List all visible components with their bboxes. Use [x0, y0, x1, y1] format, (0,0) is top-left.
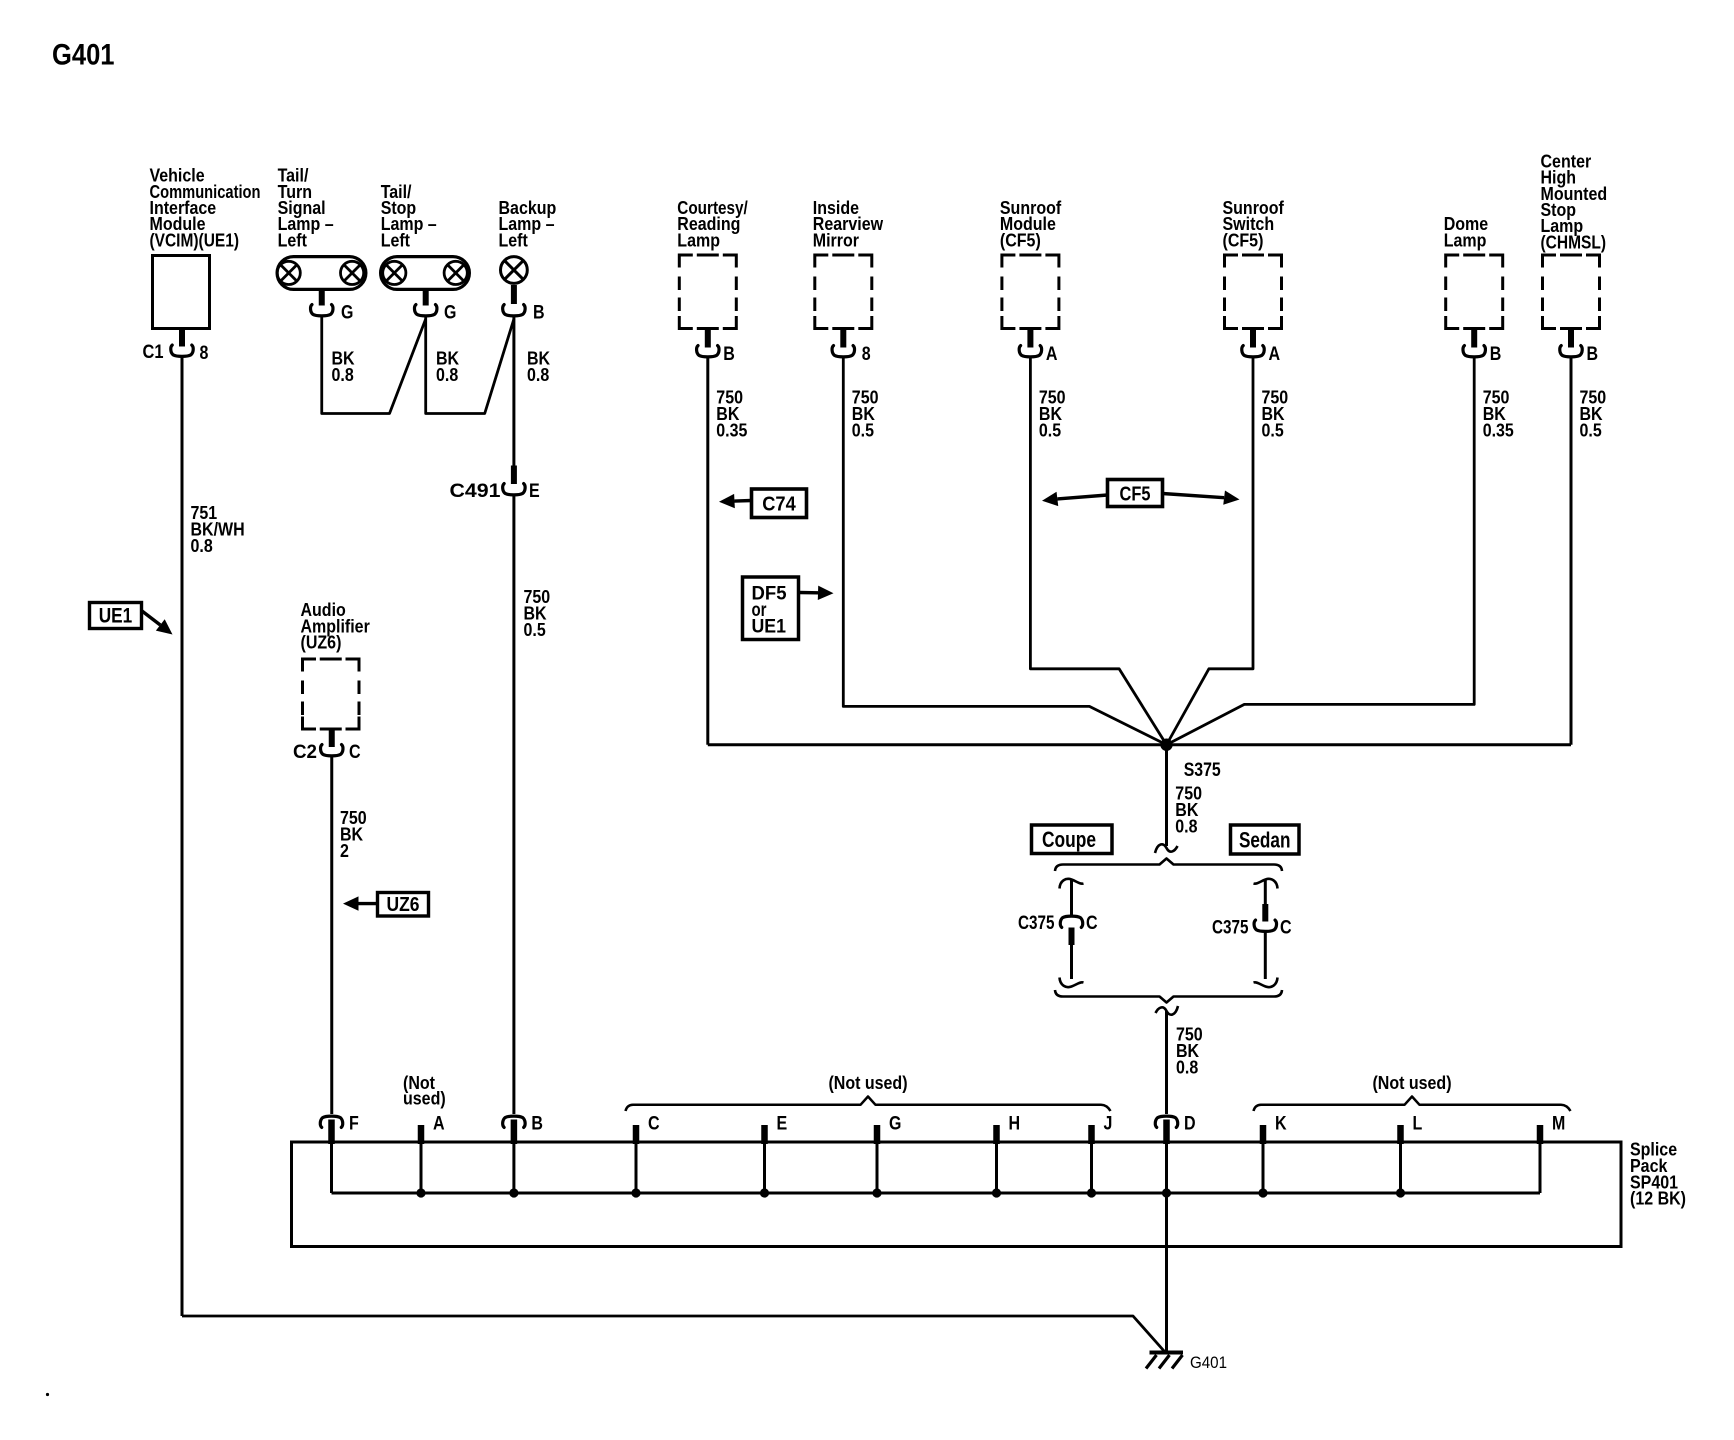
svg-text:(UZ6): (UZ6): [301, 633, 342, 653]
connector pin B courtesy/reading lamp: [697, 346, 719, 357]
sunroof switch pin stub: [1250, 330, 1256, 348]
coupe branch wire lower: [1070, 945, 1073, 979]
svg-text:B: B: [1490, 343, 1502, 365]
svg-text:0.35: 0.35: [1483, 420, 1514, 440]
backup pin stub: [511, 285, 517, 304]
sunroof switch dashed box: [1225, 255, 1282, 329]
bracket not used C-J: [626, 1097, 1111, 1112]
wire 750 BK 0.8 to splice pack: [1165, 1011, 1168, 1114]
svg-text:J: J: [1104, 1113, 1113, 1135]
coupe branch top hook: [1060, 879, 1084, 889]
courtesy/reading lamp pin stub: [705, 330, 711, 348]
wire horizontal bus into S375: [708, 743, 1571, 746]
svg-text:G: G: [341, 302, 353, 324]
svg-text:0.5: 0.5: [1262, 420, 1284, 440]
wire 750 BK 0.8 below S375: [1165, 745, 1168, 846]
splice pack bus bar: [332, 1192, 1541, 1195]
splice pack pin J: [1088, 1125, 1095, 1144]
svg-text:G401: G401: [52, 39, 115, 72]
svg-text:(VCIM)(UE1): (VCIM)(UE1): [150, 230, 240, 250]
CHMSL pin stub: [1568, 330, 1574, 348]
inside rearview mirror pin stub: [840, 330, 846, 348]
svg-text:Left: Left: [499, 230, 528, 250]
svg-text:Lamp: Lamp: [1444, 230, 1487, 250]
svg-text:8: 8: [200, 342, 209, 364]
connector C2 pin C: [321, 745, 343, 756]
connector C491 pin E: [503, 484, 525, 495]
C74 callout box: [752, 489, 807, 518]
wire mirror 750 BK 0.5: [843, 358, 1166, 745]
sedan branch wire lower: [1264, 932, 1267, 979]
connector pin B backup: [503, 305, 525, 316]
wire sunroof module 750 BK 0.5: [1030, 358, 1166, 745]
svg-text:0.5: 0.5: [852, 420, 874, 440]
svg-text:(CF5): (CF5): [1000, 230, 1041, 250]
svg-text:used): used): [403, 1089, 446, 1109]
VCIM pin stub: [179, 329, 185, 347]
svg-text:C375: C375: [1018, 912, 1055, 934]
svg-text:0.8: 0.8: [527, 365, 549, 385]
tail/turn lamp element right: [341, 261, 364, 284]
svg-text:A: A: [1046, 343, 1058, 365]
svg-text:D: D: [1184, 1113, 1196, 1135]
splice pack pin L: [1397, 1125, 1404, 1144]
tail/stop lamp body: [381, 257, 470, 290]
connector C375 coupe: [1060, 916, 1082, 927]
DF5 arrow: [818, 586, 834, 600]
CHMSL dashed box: [1543, 255, 1600, 329]
wire backup BK 0.8 upper: [512, 317, 515, 466]
svg-text:0.8: 0.8: [1176, 1057, 1198, 1077]
wire 751 BK/WH from VCIM: [181, 357, 184, 1316]
connector pin 8 inside rearview mirror: [832, 346, 854, 357]
wire 750 BK 0.5 from C491: [512, 496, 515, 1114]
svg-text:UZ6: UZ6: [387, 894, 420, 916]
svg-text:A: A: [1269, 343, 1281, 365]
svg-text:Lamp: Lamp: [677, 230, 720, 250]
svg-text:(Not used): (Not used): [828, 1073, 907, 1093]
svg-text:0.5: 0.5: [1039, 420, 1061, 440]
splice pack pin B: [503, 1116, 525, 1127]
svg-text:C: C: [1086, 912, 1098, 934]
C375 sedan stub: [1262, 904, 1268, 922]
svg-text:(CHMSL): (CHMSL): [1541, 232, 1607, 252]
tail/stop lamp element right: [444, 261, 467, 284]
svg-text:(Not used): (Not used): [1372, 1073, 1451, 1093]
connector C375 sedan: [1254, 920, 1276, 931]
svg-text:0.8: 0.8: [191, 536, 213, 556]
wire courtesy 750 BK 0.35 down: [706, 358, 709, 745]
svg-text:C375: C375: [1212, 917, 1249, 939]
splice pack pin D: [1155, 1116, 1177, 1127]
audio amplifier dashed box: [303, 659, 360, 729]
splice pack outer box: [292, 1142, 1622, 1247]
svg-text:C491: C491: [450, 480, 501, 502]
svg-text:G: G: [444, 302, 456, 324]
svg-text:0.8: 0.8: [332, 365, 354, 385]
Sedan callout box: [1231, 825, 1300, 854]
tail/turn lamp body: [277, 257, 366, 290]
svg-text:E: E: [529, 480, 540, 502]
svg-text:Coupe: Coupe: [1042, 827, 1096, 852]
C375 coupe stub: [1069, 928, 1075, 946]
svg-text:0.5: 0.5: [524, 620, 546, 640]
svg-text:Left: Left: [381, 230, 410, 250]
svg-text:E: E: [777, 1113, 788, 1135]
sunroof module dashed box: [1002, 255, 1059, 329]
splice pack pin G: [874, 1125, 881, 1144]
C2 stub: [329, 730, 335, 747]
svg-text:M: M: [1552, 1113, 1565, 1135]
tail/stop lamp element left: [383, 261, 406, 284]
svg-text:B: B: [1587, 343, 1599, 365]
svg-text:C: C: [349, 741, 361, 763]
connector pin A sunroof switch: [1242, 346, 1264, 357]
connector pin B dome lamp: [1463, 346, 1485, 357]
svg-text:8: 8: [862, 343, 871, 365]
svg-text:C74: C74: [762, 493, 796, 516]
ground G401 symbol: [1150, 1351, 1184, 1355]
splice pack pin F: [320, 1116, 342, 1127]
svg-text:(12 BK): (12 BK): [1630, 1189, 1686, 1209]
wire 750 BK 2: [330, 757, 333, 1114]
tail/turn lamp element left: [277, 261, 300, 284]
wire chmsl 750 BK 0.5 down: [1570, 358, 1573, 745]
backup lamp body: [501, 257, 528, 284]
splice pack pin E: [761, 1125, 768, 1144]
coupe branch bottom hook: [1060, 978, 1084, 988]
svg-text:F: F: [349, 1113, 359, 1135]
svg-text:Mirror: Mirror: [813, 230, 859, 250]
courtesy/reading lamp dashed box: [679, 255, 736, 329]
connector pin G tail/turn: [311, 305, 333, 316]
sedan branch top hook: [1254, 879, 1278, 889]
wire VCIM to ground: [182, 1316, 1165, 1352]
dome lamp dashed box: [1446, 255, 1503, 329]
svg-text:0.8: 0.8: [1175, 816, 1197, 836]
connector pin A sunroof module: [1019, 346, 1041, 357]
C74 arrow: [719, 494, 735, 508]
inside rearview mirror dashed box: [815, 255, 872, 329]
coupe branch wire upper: [1070, 880, 1073, 917]
svg-text:Left: Left: [278, 230, 307, 250]
svg-text:S375: S375: [1184, 759, 1221, 781]
svg-text:L: L: [1413, 1113, 1423, 1135]
svg-text:C: C: [1280, 917, 1292, 939]
svg-text:C2: C2: [293, 741, 317, 763]
connector pin G tail/stop: [414, 305, 436, 316]
wire break squiggle bottom: [1156, 1006, 1179, 1015]
connector pin B CHMSL: [1560, 346, 1582, 357]
svg-text:(CF5): (CF5): [1223, 230, 1264, 250]
svg-text:C1: C1: [143, 341, 164, 363]
svg-text:G: G: [889, 1113, 901, 1135]
wire dome 750 BK 0.35: [1167, 358, 1475, 745]
wire tail/turn BK 0.8: [322, 317, 426, 414]
page period mark: [46, 1393, 49, 1396]
C491 stub: [511, 466, 517, 485]
wire break squiggle top: [1155, 844, 1178, 853]
svg-text:A: A: [433, 1113, 445, 1135]
UE1 callout box: [90, 603, 142, 629]
connector C1 pin 8: [171, 345, 193, 356]
svg-text:UE1: UE1: [752, 616, 787, 638]
svg-text:C: C: [648, 1113, 660, 1135]
svg-text:B: B: [533, 302, 545, 324]
tail/turn pin stub: [319, 291, 325, 306]
splice pack pin A: [418, 1125, 425, 1144]
svg-text:Sedan: Sedan: [1239, 828, 1291, 853]
svg-text:G401: G401: [1190, 1353, 1227, 1372]
svg-text:0.8: 0.8: [436, 365, 458, 385]
svg-text:B: B: [723, 343, 735, 365]
wire tail/stop BK 0.8: [426, 317, 514, 414]
UZ6 arrow: [343, 896, 359, 910]
wire sunroof switch 750 BK 0.5: [1167, 358, 1254, 745]
option brace bottom: [1055, 990, 1282, 1003]
CF5 arrow right: [1223, 491, 1239, 505]
option brace top: [1055, 859, 1282, 872]
splice S375: [1160, 739, 1172, 751]
DF5 or UE1 callout box: [743, 577, 799, 640]
sedan branch bottom hook: [1254, 978, 1278, 988]
dome lamp pin stub: [1471, 330, 1477, 348]
splice pack pin K: [1260, 1125, 1267, 1144]
splice pack pin C: [633, 1125, 640, 1144]
splice pack pin H: [993, 1125, 1000, 1144]
VCIM module box: [153, 256, 210, 329]
sunroof module pin stub: [1027, 330, 1033, 348]
tail/stop pin stub: [423, 291, 429, 306]
UE1 arrow: [156, 619, 173, 634]
svg-text:0.5: 0.5: [1580, 420, 1602, 440]
bracket not used K-M: [1254, 1097, 1571, 1112]
CF5 arrow left: [1042, 492, 1058, 506]
CF5 callout box: [1108, 480, 1163, 507]
UZ6 callout box: [378, 893, 429, 917]
svg-text:CF5: CF5: [1120, 483, 1151, 506]
splice pack pin M: [1537, 1125, 1544, 1144]
Coupe callout box: [1032, 825, 1113, 854]
svg-text:UE1: UE1: [99, 605, 133, 628]
wire splice pack to ground: [1165, 1193, 1168, 1352]
svg-text:0.35: 0.35: [716, 420, 747, 440]
svg-text:2: 2: [340, 841, 349, 861]
svg-text:H: H: [1009, 1113, 1021, 1135]
sedan branch wire upper: [1264, 880, 1267, 906]
svg-text:B: B: [531, 1113, 543, 1135]
svg-text:K: K: [1275, 1113, 1287, 1135]
